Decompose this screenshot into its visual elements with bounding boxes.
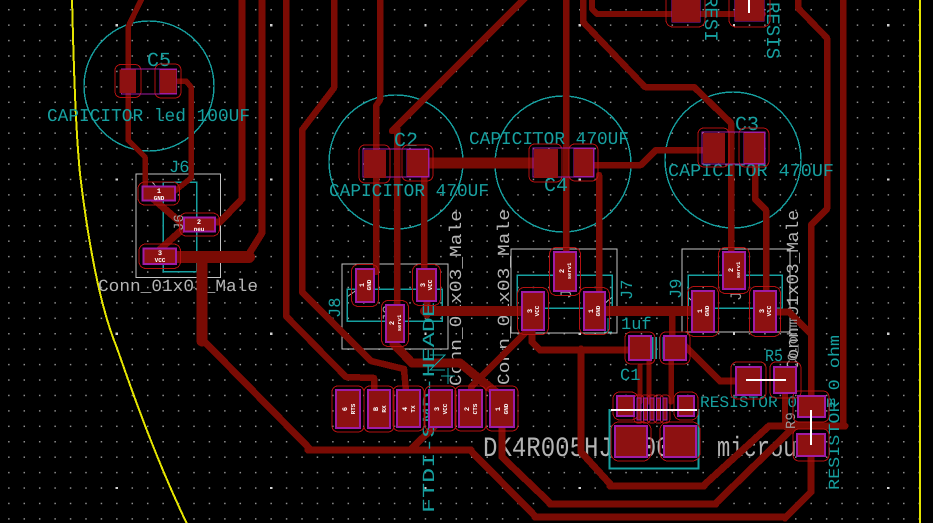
pad text J7-2 bbox=[559, 262, 573, 279]
pad text FTDI-3 VCC bbox=[434, 403, 449, 414]
capacitor body purple outlines bbox=[122, 0, 766, 177]
connector J7 pads 2,3,1 bbox=[554, 252, 576, 291]
wire bus to C1 right pad bbox=[669, 311, 676, 340]
body C4 bbox=[533, 148, 594, 177]
wire GND wrap W3 vertical from J6 bbox=[197, 257, 208, 341]
wire V2 right vertical bbox=[840, 0, 847, 424]
pad clearance outlines (thin red) bbox=[115, 0, 829, 461]
capacitor C5 pads bbox=[120, 70, 137, 94]
pad text FTDI-B RX bbox=[373, 405, 388, 413]
bevel J7 bbox=[600, 297, 612, 308]
svg-text:4: 4 bbox=[402, 407, 410, 411]
fab bevel lines gray bbox=[152, 182, 699, 308]
svg-text:VCC: VCC bbox=[534, 305, 541, 316]
board edge left arc (Edge.Cuts) bbox=[72, 0, 188, 523]
pad text J7-3 bbox=[527, 305, 541, 316]
resistor R5 pads bbox=[736, 367, 761, 395]
white pad number texts bbox=[154, 188, 773, 414]
pad text J8-1 bbox=[359, 279, 373, 290]
pad text J9-3 bbox=[759, 305, 773, 316]
svg-text:VCC: VCC bbox=[442, 403, 449, 414]
wire C3 right to J9 pad3 bbox=[755, 162, 766, 294]
svg-text:GND: GND bbox=[704, 305, 711, 316]
silk circle C3 bbox=[665, 92, 801, 228]
clearance microUSB bottom pads bbox=[611, 422, 651, 461]
svg-text:GND: GND bbox=[366, 279, 373, 290]
clearance C3 bbox=[698, 128, 729, 167]
svg-text:RESI: RESI bbox=[699, 0, 721, 42]
wire W1 diagonal up to R5 junction bbox=[703, 426, 769, 486]
courtyard J8 bbox=[342, 264, 448, 349]
wire C2 right pad to J8 pad3 bbox=[421, 175, 428, 272]
svg-text:RX: RX bbox=[381, 405, 388, 413]
svg-text:R5: R5 bbox=[765, 348, 783, 367]
microUSB shield outline teal bbox=[610, 409, 699, 469]
wire C1 left pad to USB pin bbox=[647, 357, 652, 402]
wire J7 pad3 to C1 left pad bbox=[532, 342, 627, 350]
fab rect J9 bbox=[688, 275, 782, 308]
pad text J8-2 bbox=[389, 314, 403, 331]
wire R5 right pad stem bbox=[782, 391, 788, 427]
courtyard J6 bbox=[136, 174, 221, 278]
clearance C2 bbox=[359, 145, 390, 183]
wire horizontal link under R9 bbox=[770, 423, 845, 430]
svg-text:C1: C1 bbox=[620, 367, 640, 386]
wire GND wrap W3 bottom horizontal bbox=[535, 514, 786, 521]
grid major dots bbox=[116, 24, 890, 489]
wire J7 pad3 down bbox=[529, 328, 536, 342]
svg-text:J7: J7 bbox=[619, 280, 638, 300]
pad text J8-3 bbox=[420, 279, 434, 290]
pad text J7-1 bbox=[588, 305, 602, 316]
wire FTDI GND down W2 bbox=[502, 424, 551, 504]
svg-text:Conn_01x03_Male: Conn_01x03_Male bbox=[98, 278, 258, 297]
small teal pin1 marks bbox=[430, 318, 612, 384]
resistor R7 pad (top) bbox=[735, 0, 764, 21]
clearance C4 bbox=[529, 144, 562, 182]
pad text FTDI-1 GND bbox=[495, 403, 510, 414]
wire C5 left pad to J6 pad1 bbox=[128, 0, 145, 196]
clearance J6 pads bbox=[138, 182, 180, 205]
PADS bbox=[120, 0, 826, 457]
wire J6 pad3 stub wide bbox=[177, 251, 249, 263]
connector J8 pads 1,2,3 bbox=[356, 269, 374, 302]
svg-text:6: 6 bbox=[342, 407, 350, 411]
white fab lines bbox=[611, 0, 811, 445]
clearance C5 bbox=[115, 65, 141, 98]
wire top right to J9 pad2 bbox=[583, 0, 731, 255]
gray value texts (under pads) bbox=[98, 209, 823, 465]
pad text J9-2 bbox=[728, 261, 742, 278]
courtyard J7 bbox=[511, 249, 617, 333]
silk circle C5 bbox=[84, 21, 214, 151]
bevel J8 bbox=[347, 289, 358, 297]
wire J6 pad1 to pad2 bbox=[151, 197, 186, 227]
wire C5 right pad down bbox=[170, 81, 191, 195]
wire C2 body to J8 pad2 bbox=[394, 128, 401, 308]
connector J9 pads 2,1,3 bbox=[723, 252, 745, 289]
bevel J9 bbox=[688, 297, 699, 308]
capacitor C1 pads bbox=[629, 336, 651, 360]
wire GND wrap W3 diagonal bbox=[202, 339, 310, 449]
svg-text:TX: TX bbox=[410, 405, 417, 413]
svg-text:CTS: CTS bbox=[472, 403, 479, 414]
courtyard J9 bbox=[682, 249, 790, 332]
wire C1 right pad to USB pin bbox=[668, 357, 674, 402]
fab line R9 bbox=[810, 410, 812, 445]
svg-text:serv1: serv1 bbox=[396, 314, 403, 331]
wire GND wrap W3 diagonal 2 bbox=[470, 450, 536, 517]
wire top resistor feed bbox=[592, 0, 763, 14]
clearance top resistors R6 R7 bbox=[666, 0, 705, 27]
svg-text:GND: GND bbox=[503, 403, 510, 414]
svg-text:VCC: VCC bbox=[766, 305, 773, 316]
connector J6 pads 1,2,3 bbox=[143, 187, 176, 201]
FTDI header pads 6,B,4,3,2,1 bbox=[336, 390, 360, 428]
TRACES bbox=[128, 0, 845, 518]
wire vertical to J6 pad3 bbox=[247, 0, 262, 257]
svg-text:J6: J6 bbox=[169, 159, 189, 178]
microUSB bottom pads bbox=[615, 426, 647, 457]
silk circle C4 bbox=[495, 96, 631, 232]
svg-text:GND: GND bbox=[154, 195, 165, 202]
silk circle C2 bbox=[329, 95, 463, 229]
fab rect J8 bbox=[347, 289, 442, 321]
bevel J6 bbox=[152, 182, 163, 194]
wire J9 pad3 diag to V1 bbox=[775, 312, 810, 333]
capacitor C2 pads bbox=[364, 150, 386, 178]
svg-text:serv1: serv1 bbox=[735, 261, 742, 278]
wire USB pin feed bbox=[638, 366, 643, 402]
wire C4 right to C3 left bbox=[592, 150, 704, 165]
fab line microUSB shield bbox=[611, 409, 697, 411]
wire W1 from C1 junction down bbox=[581, 349, 611, 485]
pad text FTDI-6 RTS bbox=[342, 403, 357, 414]
svg-text:1: 1 bbox=[495, 407, 503, 411]
wire GND wrap W3 horizontal 1 bbox=[308, 447, 471, 454]
svg-text:neu: neu bbox=[194, 226, 205, 233]
svg-text:CAPICITOR 470UF: CAPICITOR 470UF bbox=[329, 182, 489, 202]
wire J8 pad2 to FTDI GND wide bbox=[394, 336, 505, 400]
svg-text:serv1: serv1 bbox=[566, 262, 573, 279]
wire top to C2 left pad to J8 pad1 bbox=[376, 0, 380, 272]
clearance microUSB pins bbox=[634, 395, 644, 423]
body C3 bbox=[702, 132, 765, 164]
fab line R5 bbox=[746, 379, 786, 381]
mark J7 pin1 bbox=[604, 318, 612, 332]
clearance R9 bbox=[793, 391, 829, 422]
svg-text:J9: J9 bbox=[668, 279, 687, 299]
clearance J9 pads bbox=[719, 248, 750, 294]
body C2 bbox=[363, 149, 429, 177]
svg-text:VCC: VCC bbox=[155, 257, 166, 264]
fab rect J6 bbox=[163, 182, 197, 272]
microUSB mount pads bbox=[617, 396, 634, 416]
clearance J7 pads bbox=[550, 248, 581, 296]
wire W1 horizontal bbox=[610, 483, 704, 490]
small gray refs over traces bbox=[172, 214, 802, 429]
resistor R9 pads bbox=[798, 396, 825, 417]
board edge right line (Edge.Cuts) bbox=[919, 0, 921, 523]
fab hatch C1 bbox=[653, 337, 664, 359]
wire VCC bus segment 1 bbox=[425, 306, 524, 316]
body C5 bbox=[122, 69, 177, 94]
svg-text:GND: GND bbox=[595, 305, 602, 316]
clearance FTDI pads bbox=[332, 386, 364, 432]
wire bus C2 to C4 bbox=[427, 158, 536, 169]
mark FTDI pin marks bbox=[430, 355, 455, 384]
wire VCC bus segment 2 bbox=[604, 306, 694, 316]
wire W2 diagonal up to R9 bbox=[715, 425, 796, 504]
clearance R5 bbox=[731, 362, 766, 399]
silkscreen circles bbox=[84, 21, 801, 232]
clearance C1 bbox=[625, 332, 655, 364]
clearance microUSB mount pads bbox=[613, 392, 638, 420]
svg-text:2: 2 bbox=[464, 407, 472, 411]
svg-text:0_ohm: 0_ohm bbox=[786, 319, 802, 361]
svg-text:RTS: RTS bbox=[350, 403, 357, 414]
capacitor C4 pads bbox=[534, 149, 558, 178]
wire J6 pad2 to pad3 bbox=[157, 227, 185, 252]
fab line top resistor R7 bbox=[748, 0, 750, 13]
pad text FTDI-4 TX bbox=[402, 405, 417, 413]
fab outlines teal (under pads) bbox=[163, 182, 782, 359]
clearance J8 pads bbox=[352, 265, 379, 307]
svg-text:J8: J8 bbox=[327, 298, 346, 318]
svg-text:CAPICITOR 470UF: CAPICITOR 470UF bbox=[668, 162, 834, 182]
svg-text:VCC: VCC bbox=[427, 279, 434, 290]
wire J7 pad3 to FTDI CTS bbox=[471, 325, 533, 396]
wire W2 horizontal bbox=[550, 501, 716, 508]
fab rect J7 bbox=[517, 275, 612, 308]
wire vertical mid-left to FTDI RX bbox=[286, 0, 374, 392]
pad text J9-1 bbox=[697, 305, 711, 316]
wire GND wrap W3 to R9 stem bbox=[785, 454, 811, 518]
svg-text:CAPICITOR 470UF: CAPICITOR 470UF bbox=[469, 130, 629, 150]
wire V1 right vertical to R9 top bbox=[798, 0, 827, 398]
wire long diagonal to C2 bbox=[392, 0, 526, 131]
pad text FTDI-2 CTS bbox=[464, 403, 479, 414]
microUSB pin pads bbox=[637, 398, 641, 420]
wire branch to FTDI VCC bbox=[410, 424, 437, 450]
wire jog vertical to FTDI TX bbox=[302, 0, 406, 392]
svg-text:CAPICITOR led 100UF: CAPICITOR led 100UF bbox=[47, 107, 250, 127]
wire vertical to J6 pad2 bbox=[212, 0, 242, 222]
wire J8 pad3 stub down bbox=[424, 299, 431, 315]
wire C1 right to R5 left bbox=[683, 344, 738, 381]
capacitor C3 pads bbox=[703, 133, 725, 163]
resistor R6 pad (top) bbox=[672, 0, 700, 22]
wire top to J7 pad2 bbox=[563, 0, 570, 255]
courtyards (gray rects) bbox=[136, 174, 790, 349]
wire C4 right pad to J7 pad1 bbox=[596, 175, 603, 294]
svg-text:C4: C4 bbox=[544, 175, 568, 198]
svg-text:3: 3 bbox=[434, 407, 442, 411]
